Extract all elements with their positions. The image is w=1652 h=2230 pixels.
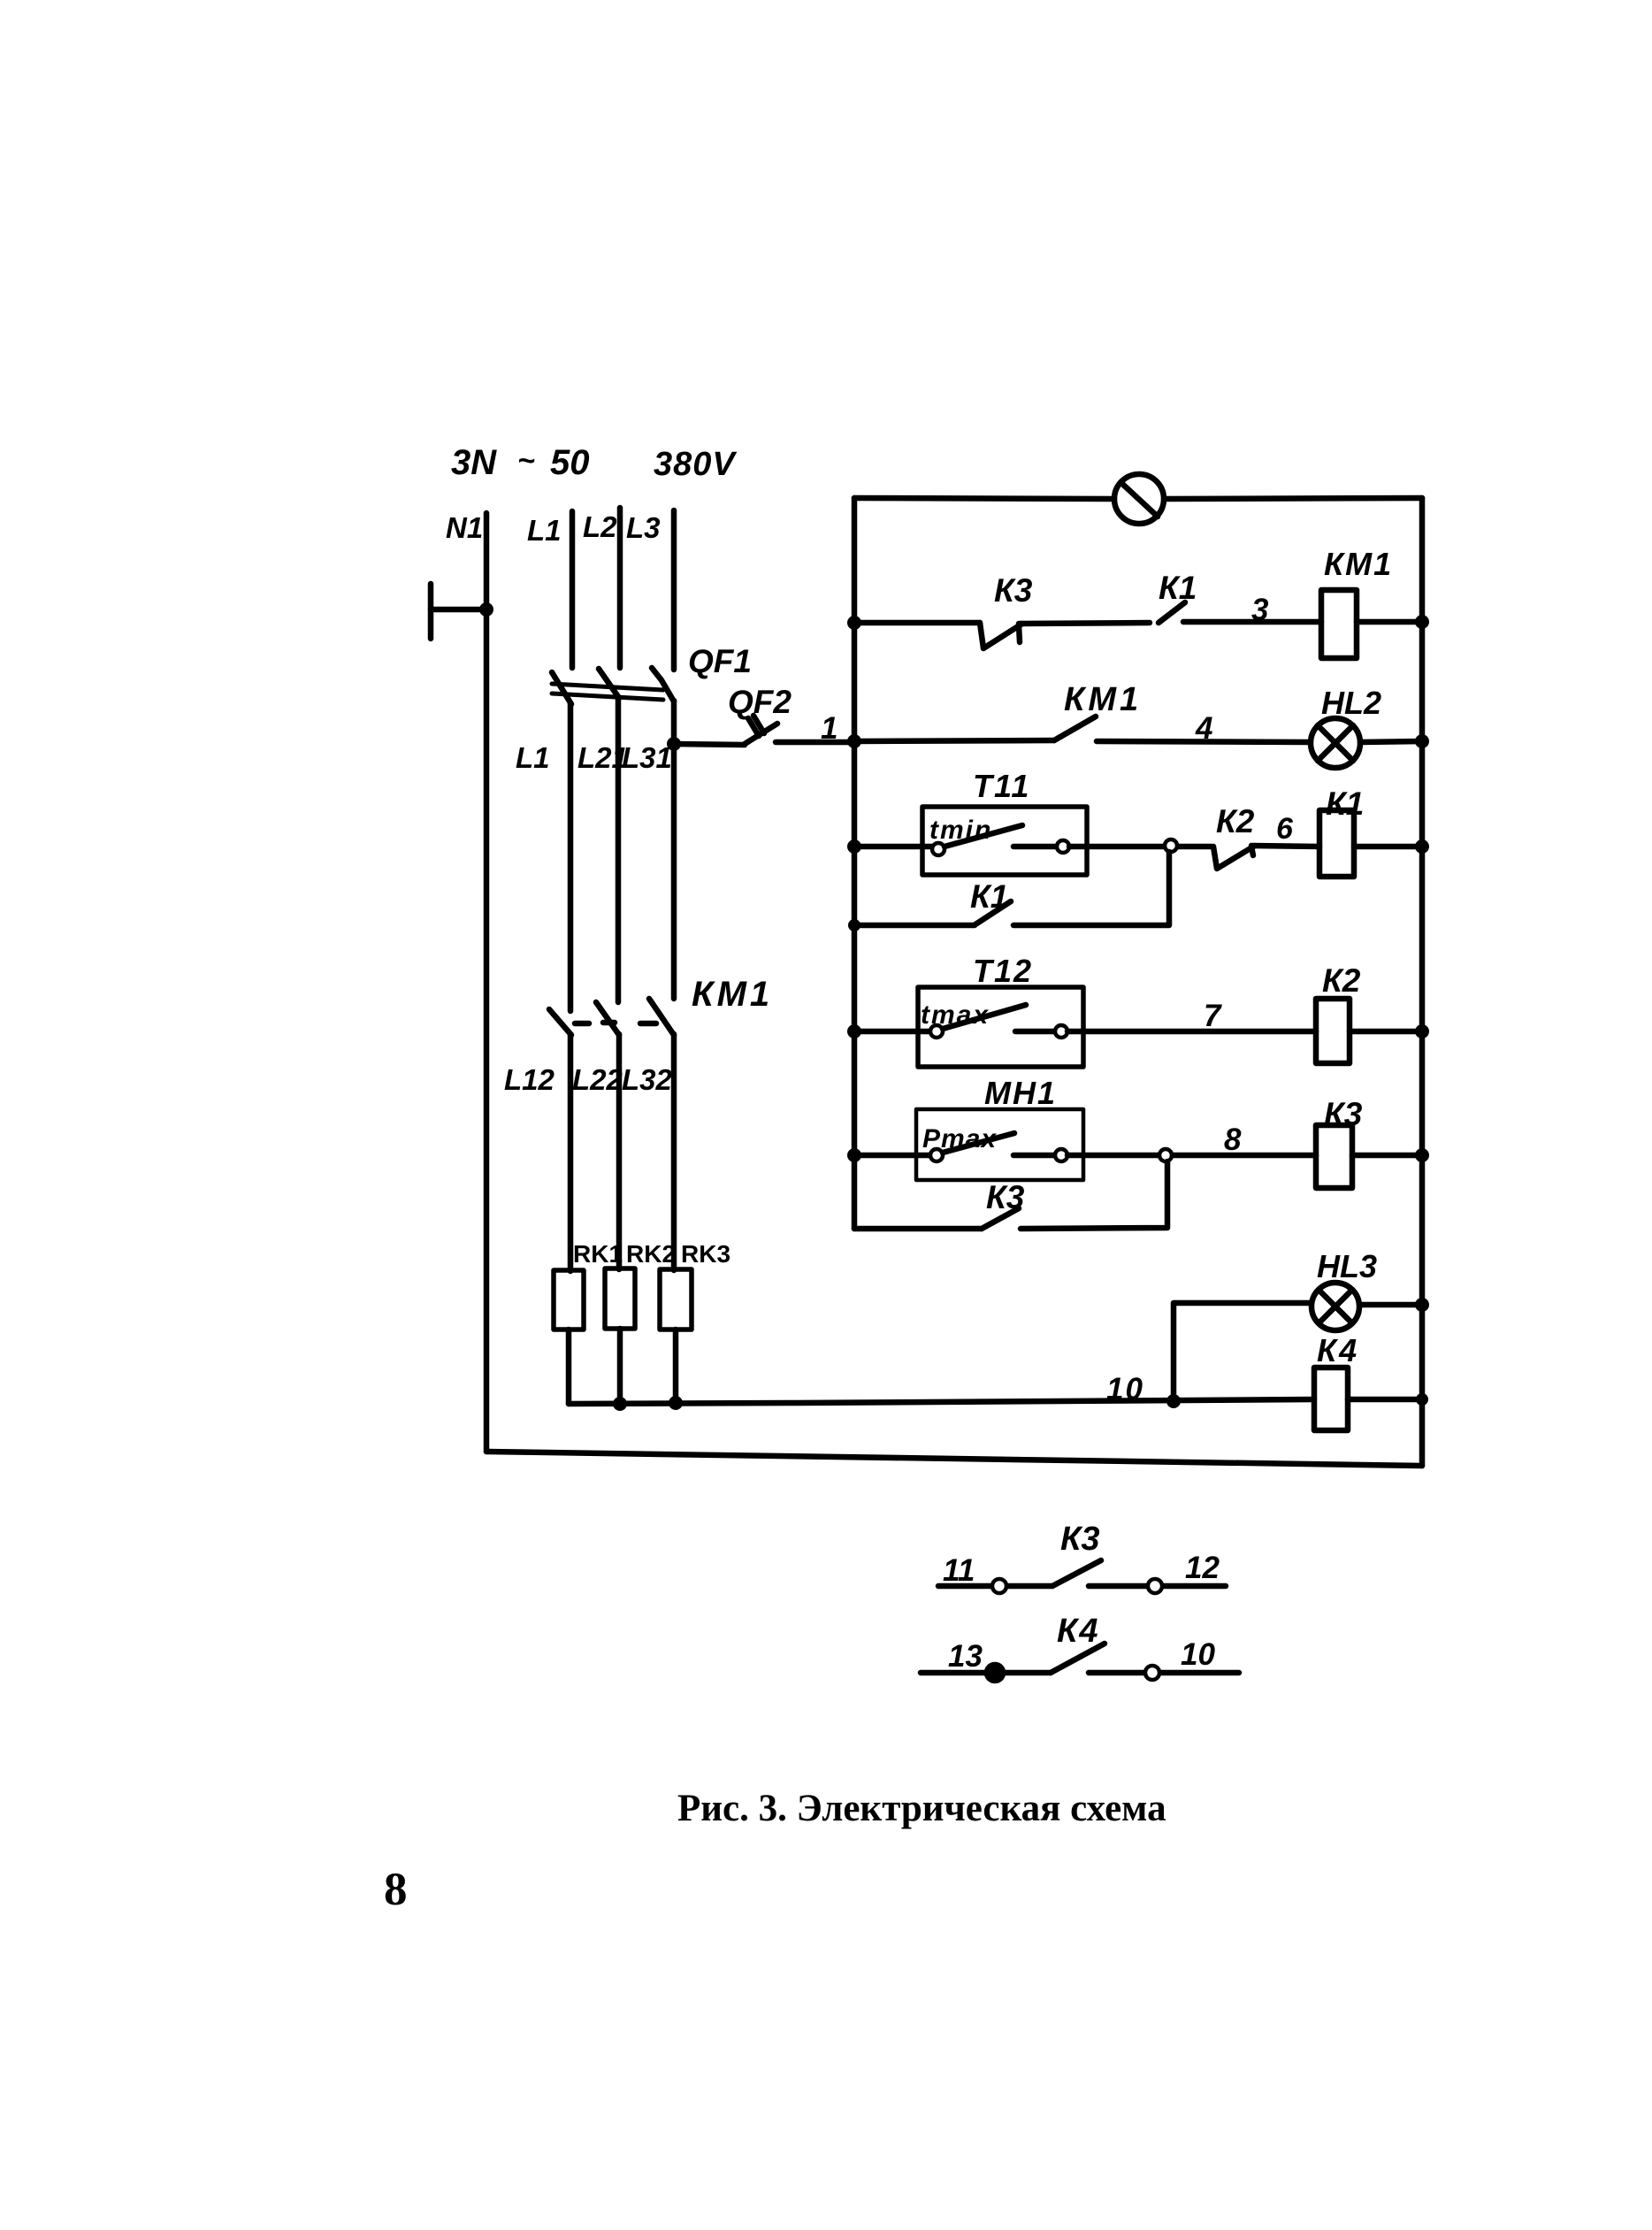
svg-text:10: 10 — [1106, 1372, 1144, 1406]
svg-text:10: 10 — [1181, 1637, 1215, 1672]
svg-text:К4: К4 — [1317, 1332, 1359, 1368]
wire K1 bypass left — [854, 923, 975, 929]
relay coil K3 — [1316, 1125, 1352, 1188]
svg-text:Т11: Т11 — [973, 768, 1030, 804]
svg-text:HL3: HL3 — [1317, 1248, 1377, 1284]
wire top right — [1164, 498, 1422, 499]
svg-text:Рис. 3. Электрическая схема: Рис. 3. Электрическая схема — [677, 1788, 1166, 1829]
node junction row5 branch — [1159, 1149, 1172, 1161]
svg-text:11: 11 — [943, 1553, 975, 1588]
wire L2 lower — [616, 1034, 623, 1269]
node junction K4 right — [1416, 1393, 1428, 1406]
node junction HL3 right — [1415, 1298, 1429, 1312]
wire L2 top — [617, 508, 623, 668]
node junction row3 left — [847, 839, 861, 854]
wire N1 vertical bus — [484, 513, 490, 1452]
wire row1 right — [1357, 619, 1422, 625]
wire row5 mid — [1067, 1153, 1316, 1159]
svg-text:1: 1 — [821, 711, 837, 746]
resistor RK1 — [554, 1270, 584, 1330]
svg-text:~: ~ — [517, 444, 535, 478]
breaker QF1 pole 3 — [652, 668, 674, 701]
svg-text:К2: К2 — [1322, 962, 1361, 999]
contactor coil KM1 — [1321, 590, 1357, 658]
node junction K1 bypass left — [848, 919, 860, 931]
contact K1 bypass blade — [975, 901, 1011, 924]
svg-text:7: 7 — [1204, 999, 1222, 1033]
wire K3 bypass left — [854, 1226, 982, 1232]
node junction HL3 branch — [1166, 1394, 1181, 1408]
node junction row4 right — [1415, 1024, 1429, 1038]
svg-text:RK3: RK3 — [681, 1240, 730, 1268]
wire row3 left — [854, 844, 932, 850]
wire L3 middle — [671, 701, 677, 999]
svg-text:N1: N1 — [446, 511, 483, 544]
wire RK2 bottom stub — [617, 1329, 623, 1404]
svg-text:L22: L22 — [572, 1063, 623, 1096]
wire top left — [854, 498, 1114, 499]
lamp HL3 — [1312, 1283, 1359, 1330]
svg-text:L2: L2 — [583, 510, 617, 543]
wire L1 lower — [568, 1034, 574, 1271]
svg-text:К1: К1 — [1326, 785, 1364, 822]
wire RK1 bottom stub — [566, 1330, 572, 1404]
wire HL3 branch vertical — [1174, 1303, 1311, 1401]
wire row5 left — [854, 1153, 930, 1159]
thermostat T11 contact — [932, 825, 1069, 855]
svg-text:МН1: МН1 — [984, 1075, 1057, 1111]
node junction row1 left — [847, 616, 861, 630]
contactor KM1 pole 3 — [640, 999, 674, 1035]
node junction row5 left — [847, 1148, 861, 1162]
node junction QF2 tap — [667, 737, 681, 751]
label 3N ~ 50 — [451, 443, 590, 482]
wire row2 right — [1360, 741, 1422, 742]
wire row1 mid — [1019, 623, 1150, 624]
wire K4 right — [1348, 1397, 1422, 1403]
contact K3 NC — [980, 623, 1022, 648]
wire row4 node 7 — [1067, 1029, 1316, 1035]
wire row2 left — [854, 740, 1054, 741]
svg-text:380V: 380V — [654, 446, 737, 483]
svg-text:К2: К2 — [1216, 803, 1255, 839]
wire control box right vertical — [1419, 498, 1426, 1466]
wire row5 right — [1352, 1153, 1422, 1159]
node junction RK2 — [613, 1397, 627, 1411]
wire QF2 left — [674, 744, 745, 745]
svg-text:L12: L12 — [504, 1063, 555, 1096]
svg-text:L1: L1 — [516, 741, 550, 774]
contactor KM1 pole 1 — [549, 1009, 589, 1035]
svg-text:4: 4 — [1195, 711, 1212, 746]
wire bottom return — [486, 1452, 1422, 1466]
node junction row4 left — [847, 1024, 861, 1038]
wire K1 bypass right — [1013, 852, 1169, 925]
contact KM1 NO blade — [1054, 717, 1096, 740]
svg-text:QF2: QF2 — [728, 684, 792, 720]
svg-text:3N: 3N — [451, 443, 497, 482]
relay coil K4 — [1314, 1368, 1348, 1430]
svg-text:13: 13 — [948, 1639, 983, 1674]
wire L1 top — [570, 511, 576, 668]
svg-text:К3: К3 — [994, 572, 1033, 609]
svg-text:3: 3 — [1251, 593, 1269, 627]
ground tap symbol — [431, 584, 486, 639]
pressure switch MH1 box — [916, 1109, 1083, 1180]
svg-text:8: 8 — [384, 1864, 408, 1915]
wire row3 mid — [1069, 844, 1212, 850]
svg-text:КМ1: КМ1 — [1064, 681, 1142, 718]
svg-text:8: 8 — [1224, 1123, 1242, 1157]
wire node 10 horizontal — [569, 1399, 1314, 1404]
wire row3 right — [1354, 844, 1422, 850]
breaker QF1 pole 1 — [552, 672, 571, 704]
svg-text:12: 12 — [1185, 1551, 1220, 1585]
svg-text:RK2: RK2 — [626, 1240, 676, 1268]
wire row1 left — [854, 620, 980, 626]
resistor RK3 — [660, 1269, 692, 1330]
thermostat T12 box — [918, 987, 1083, 1067]
wire row1 node 3 — [1183, 619, 1321, 625]
svg-text:L3: L3 — [626, 511, 661, 544]
node junction row1 right — [1415, 615, 1429, 629]
switch QF2 blade — [745, 716, 777, 744]
svg-text:6: 6 — [1276, 812, 1294, 846]
breaker QF1 pole 2 — [599, 669, 619, 698]
wire L2 middle — [616, 697, 622, 1002]
svg-text:L1: L1 — [527, 514, 562, 547]
svg-text:L32: L32 — [622, 1063, 673, 1096]
contact K2 NC — [1213, 846, 1255, 869]
node junction row5 right — [1415, 1148, 1429, 1162]
svg-text:КМ1: КМ1 — [692, 975, 773, 1014]
contact K3 aux — [938, 1560, 1226, 1593]
wire L1 middle — [568, 703, 574, 1011]
wire RK3 bottom stub — [673, 1330, 679, 1404]
svg-text:HL2: HL2 — [1321, 685, 1381, 721]
thermostat T12 contact — [930, 1005, 1067, 1038]
contact K1 NO blade — [1159, 602, 1185, 623]
wire K3 bypass right — [1021, 1161, 1167, 1229]
svg-text:L21: L21 — [577, 741, 628, 774]
relay coil K1 — [1319, 810, 1354, 877]
breaker QF1 tie bar — [552, 684, 663, 700]
wire row3 node 6 — [1251, 846, 1319, 847]
svg-text:QF1: QF1 — [688, 643, 752, 679]
wire node 1 — [776, 740, 854, 746]
wire row2 node 4 — [1097, 741, 1311, 742]
wire row4 right — [1350, 1029, 1422, 1035]
fuse lamp top — [1114, 474, 1164, 524]
node junction RK3 — [669, 1396, 683, 1410]
wire row4 left — [854, 1029, 930, 1035]
svg-text:50: 50 — [550, 443, 590, 482]
svg-text:К4: К4 — [1057, 1613, 1100, 1650]
wire control box left vertical — [852, 498, 858, 1229]
wire L3 top — [671, 510, 677, 670]
node junction on N1 — [479, 602, 493, 617]
relay coil K2 — [1316, 999, 1350, 1063]
thermostat T11 box — [922, 807, 1087, 875]
svg-text:КМ1: КМ1 — [1324, 546, 1393, 582]
svg-text:К3: К3 — [1060, 1521, 1100, 1558]
lamp HL2 — [1311, 718, 1360, 768]
contactor KM1 pole 2 — [596, 1002, 619, 1035]
svg-text:RK1: RK1 — [573, 1240, 623, 1268]
contact K4 aux — [921, 1644, 1239, 1681]
wire HL3 right — [1359, 1302, 1422, 1308]
resistor RK2 — [605, 1268, 635, 1329]
wire L3 lower — [671, 1034, 677, 1270]
node junction row2 right — [1415, 734, 1429, 748]
node junction row3 branch — [1165, 839, 1177, 852]
svg-text:L31: L31 — [622, 741, 672, 774]
svg-text:Т12: Т12 — [973, 953, 1033, 989]
contact K3 bypass blade — [982, 1208, 1019, 1229]
node junction row3 right — [1415, 839, 1429, 854]
node junction row2 left — [847, 734, 861, 748]
pressure switch MH1 contact — [930, 1133, 1067, 1161]
svg-text:К1: К1 — [1159, 570, 1197, 606]
